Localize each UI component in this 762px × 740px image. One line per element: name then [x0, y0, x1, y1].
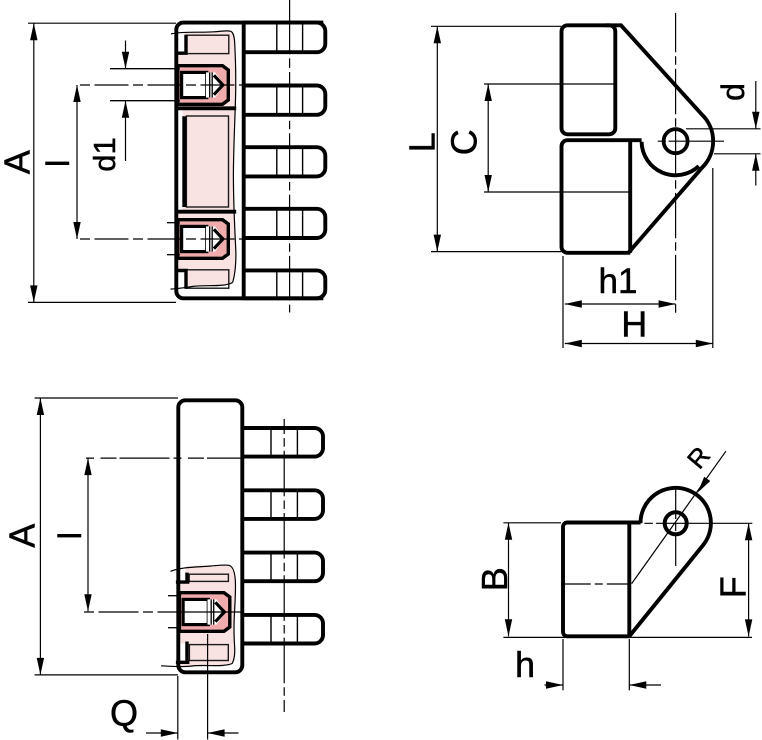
svg-text:l: l [40, 160, 76, 167]
hinge pin centerline (vertical, view 3) [283, 419, 285, 712]
pin hole (side view) [664, 129, 688, 153]
knuckle block (view 4) [563, 523, 641, 637]
set screw bottom (cross-section) [178, 220, 229, 259]
upper recess step lines [176, 35, 187, 54]
broken-out section fill view 3 [180, 565, 236, 668]
dimension d1 arrows and shafts [125, 41, 127, 69]
upper recess outline view 3 [189, 574, 228, 581]
gusset / lug outline [605, 25, 713, 252]
dimension F line [748, 523, 750, 636]
horizontal centerline (view 4) [644, 522, 752, 524]
break line bottom wavy view 3 [161, 664, 232, 667]
white notch above screw view 3 [179, 566, 185, 580]
top leaf screw axis line [484, 83, 615, 85]
vertical centerline (view 4) [675, 488, 677, 566]
lower recess outline [186, 270, 229, 288]
finger 4 pin hole silhouette lines [276, 210, 278, 236]
Q extension line right [207, 634, 209, 740]
view 4: single knuckle side detail [474, 441, 753, 691]
view 2: side view of assembled hinge [401, 13, 760, 348]
finger 2 pin hole silhouette lines (view 3) [270, 492, 272, 518]
dimension A line (view 3) [39, 398, 41, 675]
hinge body outline (right leaf) [178, 400, 242, 672]
white notch above top screw [178, 31, 185, 52]
svg-text:H: H [621, 304, 647, 345]
broken-out section fill (light pink) [178, 31, 236, 289]
svg-text:d1: d1 [87, 137, 122, 171]
dimension A extension bottom (view 3) [35, 674, 178, 676]
finger 1 pin hole silhouette lines (view 3) [270, 430, 272, 456]
finger 3 pin hole silhouette lines (view 3) [270, 554, 272, 580]
dimension A extension top (view 3) [35, 397, 178, 399]
Q extension line left [177, 676, 179, 740]
dimension d extension lines [686, 128, 761, 130]
dimension B line [508, 523, 510, 637]
knuckle barrel arc [642, 142, 699, 175]
knuckle finger 1 (right leaf) [242, 428, 323, 457]
h extension lines [562, 639, 564, 690]
R radius leader line [632, 451, 726, 584]
svg-text:h1: h1 [599, 262, 638, 301]
knuckle finger 2 (right leaf) [242, 490, 323, 519]
upper reference centerline (view 3) [86, 457, 244, 459]
dimension L extension bottom [431, 251, 561, 253]
upper recess step lines view 3 [176, 573, 190, 583]
dimension B extension top [503, 522, 561, 524]
knuckle finger 4 (right leaf) [242, 615, 323, 644]
break line bottom wavy [171, 283, 233, 290]
bottom leaf block (side view) [562, 140, 642, 253]
dimension l line (view 3) [87, 458, 89, 611]
svg-text:d: d [715, 83, 751, 101]
pin vertical centerline (view 2) [675, 13, 677, 313]
middle recess outline [186, 116, 228, 207]
screw axis dash line (view 4) [565, 583, 630, 585]
dimension Q arrows [146, 732, 178, 734]
upper recess outline [186, 35, 229, 53]
view 3: front view of mating hinge leaf with 4 knuckles and 1 set screw [2, 398, 323, 740]
centerline screw axis view 3 [84, 611, 176, 613]
svg-text:A: A [2, 524, 43, 548]
middle recess left bar [182, 116, 186, 207]
knuckle finger 3 (right leaf) [242, 553, 323, 582]
separator line above bottom screw boss [176, 210, 236, 214]
dimension h1 line [565, 303, 676, 305]
dimension l line (view 1) [76, 85, 78, 239]
finger 1 pin hole silhouette lines [276, 24, 278, 51]
dimension L extension top [431, 25, 561, 27]
knuckle finger 4 (left leaf) [244, 209, 326, 238]
svg-text:L: L [401, 132, 442, 152]
break line top wavy [171, 31, 236, 283]
finger 2 pin hole silhouette lines [276, 87, 278, 113]
dimension A line [33, 23, 35, 302]
tapped hole minor-diameter lines top screw / d1 extension lines [110, 68, 180, 70]
knuckle finger 1 (left leaf) [244, 23, 326, 53]
bottom leaf block right edge [628, 140, 632, 253]
svg-text:l: l [52, 532, 88, 539]
bottom leaf screw axis line [484, 191, 630, 193]
dimension C line [487, 84, 489, 192]
knuckle finger 2 (left leaf) [244, 86, 326, 115]
white notch below screw view 3 [179, 644, 185, 661]
set screw view 3 (cross-section) [179, 593, 230, 632]
white strip left of middle recess [178, 110, 183, 210]
hinge pin centerline (vertical, view 1) [289, 0, 291, 313]
svg-text:A: A [0, 150, 37, 174]
dimension A extension line bottom [28, 301, 176, 303]
lower recess step lines view 3 [176, 642, 190, 663]
knuckle finger 3 (left leaf) [244, 147, 326, 176]
view 1: front view of hinge leaf with 5 knuckles and 2 set screws [0, 0, 325, 313]
pin horizontal centerline (view 2) [658, 140, 724, 142]
svg-text:F: F [712, 576, 753, 598]
break line top wavy view 3 [171, 565, 236, 664]
centerline bottom screw axis [80, 238, 247, 240]
h1 left extension line [562, 256, 564, 348]
tapped hole minor-diameter lines bottom screw [167, 222, 180, 224]
hinge body outline (left leaf) [176, 23, 323, 299]
finger 5 pin hole silhouette lines [276, 272, 278, 297]
finger 3 pin hole silhouette lines [276, 149, 278, 175]
separator line below top screw boss [176, 106, 236, 110]
knuckle base line [242, 21, 246, 300]
set screw top (cross-section) [178, 66, 229, 105]
lug circle and diagonal (view 4) [629, 488, 711, 636]
lower recess outline view 3 [189, 645, 228, 661]
white notch below bottom screw [178, 272, 185, 290]
top leaf block (side view) [562, 25, 616, 134]
tapped hole minor-diameter lines view 3 [168, 595, 181, 597]
pin hole (view 4) [665, 512, 687, 534]
dimension H line [565, 343, 713, 345]
centerline top screw axis [80, 84, 247, 86]
knuckle finger 5 (left leaf) [244, 270, 326, 298]
svg-text:C: C [444, 129, 485, 155]
svg-text:Q: Q [110, 693, 138, 734]
knuckle right edge line [627, 523, 631, 637]
H right extension line [712, 168, 714, 348]
dimension A extension line top [28, 22, 176, 24]
svg-text:h: h [515, 644, 535, 685]
lower recess step lines [176, 270, 187, 289]
bottom extension line shared by B and F [503, 636, 752, 638]
svg-text:B: B [474, 567, 515, 591]
dimension h arrows [545, 684, 564, 686]
finger 4 pin hole silhouette lines (view 3) [270, 616, 272, 642]
dimension d arrows [755, 81, 757, 129]
R arrowhead on lug circle [694, 477, 710, 495]
dimension L line [436, 26, 438, 251]
